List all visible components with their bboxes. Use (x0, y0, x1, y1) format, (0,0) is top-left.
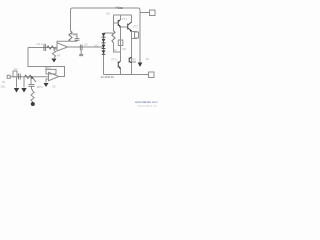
svg-text:VT2: VT2 (133, 25, 139, 29)
svg-text:R8: R8 (123, 47, 127, 51)
svg-text:14 15 8 12: 14 15 8 12 (101, 75, 115, 79)
svg-text:C9: C9 (52, 85, 56, 89)
svg-text:R2: R2 (47, 66, 51, 70)
svg-text:C1: C1 (14, 67, 18, 71)
svg-text:BL: BL (146, 57, 150, 61)
svg-text:+Vcc: +Vcc (115, 6, 123, 10)
svg-text:C6: C6 (84, 43, 88, 47)
svg-text:R6: R6 (57, 54, 61, 58)
svg-text:R7: R7 (74, 34, 78, 38)
svg-text:www.dianlut.com: www.dianlut.com (135, 100, 158, 104)
svg-text:RP1: RP1 (37, 85, 43, 89)
svg-text:IN: IN (2, 80, 5, 84)
svg-text:220: 220 (1, 85, 6, 89)
svg-text:VD: VD (95, 44, 99, 48)
svg-text:VT1: VT1 (122, 17, 128, 21)
svg-text:dianlutu jdbpcb.com: dianlutu jdbpcb.com (138, 104, 158, 107)
svg-text:R9: R9 (132, 58, 136, 62)
svg-text:VT3: VT3 (111, 58, 117, 62)
svg-text:C2 4.7: C2 4.7 (37, 42, 46, 46)
svg-text:(3): (3) (106, 12, 110, 16)
